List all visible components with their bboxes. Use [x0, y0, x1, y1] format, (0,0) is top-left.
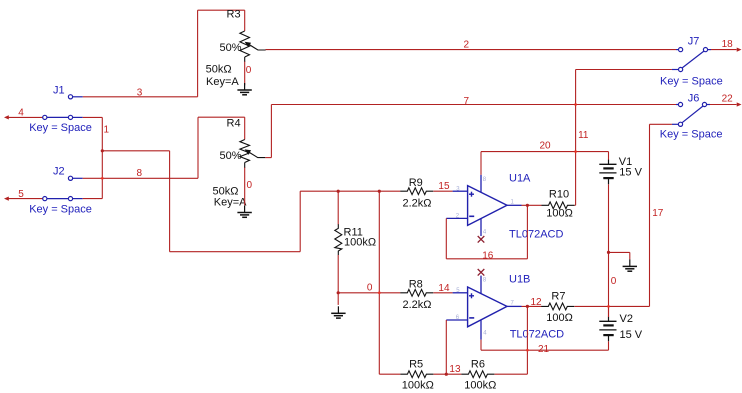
svg-text:U1A: U1A	[509, 172, 531, 184]
resistor R6	[461, 371, 494, 378]
svg-text:1: 1	[104, 124, 110, 135]
wire net 18 output	[711, 49, 737, 51]
wire net 17 J6 to R7	[650, 123, 672, 125]
svg-text:R6: R6	[471, 359, 485, 371]
wire net 12 R6 to U1B output	[495, 373, 528, 375]
wire net 21 U1B pin4 to V2 minus	[480, 340, 482, 351]
junction U1A output	[526, 204, 529, 207]
wire net 13 U1B inverting input	[445, 320, 447, 374]
wire net 1 branch to resistor row	[102, 150, 169, 152]
op-amp U1A	[468, 186, 507, 226]
svg-text:R8: R8	[409, 279, 423, 291]
wire net 0 V1 minus to V2 plus	[608, 184, 610, 317]
wire net 0 ground stub	[337, 293, 339, 305]
wire net 3 from J1 to R3 top	[83, 96, 198, 98]
wire net 1 from J1 contact down to J2 contact	[83, 116, 103, 118]
svg-text:21: 21	[538, 344, 550, 355]
resistor R7	[541, 303, 574, 310]
svg-text:100kΩ: 100kΩ	[464, 379, 496, 391]
wire R4 bottom to ground	[244, 163, 246, 169]
wire net 0 ground branch	[609, 251, 630, 253]
ground near R11	[337, 306, 339, 313]
svg-text:7: 7	[464, 96, 470, 107]
svg-text:J7: J7	[688, 36, 700, 48]
svg-text:0: 0	[611, 276, 617, 287]
wire R3 bottom to ground	[244, 57, 246, 62]
potentiometer R4 body	[240, 140, 250, 163]
wire net 2 from R3 wiper to J7	[266, 49, 677, 51]
junction net 1 at J1 column	[101, 149, 104, 152]
wire net 0 from ground to R8	[338, 292, 400, 294]
wire R10 to net 11	[575, 204, 576, 206]
svg-text:12: 12	[531, 297, 543, 308]
svg-text:11: 11	[578, 130, 589, 141]
svg-text:R3: R3	[227, 9, 241, 21]
U1B pin 8 no-connect X	[478, 269, 485, 276]
svg-text:Key = Space: Key = Space	[660, 128, 723, 140]
resistor R8	[400, 289, 433, 296]
svg-text:R9: R9	[409, 177, 423, 189]
svg-text:TL072ACD: TL072ACD	[510, 329, 564, 341]
resistor R9	[400, 188, 433, 195]
wire net 13 between R5 and R6	[434, 373, 462, 375]
svg-text:J6: J6	[688, 92, 700, 104]
junction U1B output	[526, 305, 529, 308]
svg-text:8: 8	[137, 168, 143, 179]
svg-text:2.2kΩ: 2.2kΩ	[403, 299, 432, 311]
op-amp U1B	[468, 287, 507, 327]
svg-text:0: 0	[246, 65, 252, 76]
junction net 0 ground branch	[607, 251, 610, 254]
svg-text:U1B: U1B	[509, 274, 530, 286]
svg-text:TL072ACD: TL072ACD	[509, 229, 563, 241]
svg-text:R5: R5	[409, 359, 423, 371]
wire U1A output to R10	[522, 204, 542, 206]
potentiometer R4 wiper arrow	[250, 153, 266, 158]
svg-text:3: 3	[137, 87, 143, 98]
svg-text:17: 17	[652, 208, 664, 219]
svg-text:Key = Space: Key = Space	[29, 203, 92, 215]
wire net 1 down to R5	[378, 191, 380, 374]
potentiometer R3 wiper arrow	[250, 45, 266, 50]
wire net 14 R8 to U1B	[433, 292, 452, 294]
svg-text:15: 15	[438, 181, 450, 192]
ground between batteries	[629, 259, 631, 266]
svg-text:R7: R7	[551, 290, 565, 302]
battery V1	[608, 160, 610, 165]
svg-text:Key=A: Key=A	[214, 196, 247, 208]
wire net 1 stub to R11	[337, 191, 339, 224]
svg-text:100Ω: 100Ω	[546, 312, 573, 324]
svg-text:0: 0	[247, 180, 253, 191]
svg-text:2: 2	[464, 39, 470, 50]
svg-text:5: 5	[18, 189, 24, 200]
resistor R11	[335, 224, 342, 255]
switch J7	[672, 69, 679, 71]
wire U1B output to R7	[522, 305, 542, 307]
svg-text:100kΩ: 100kΩ	[402, 379, 434, 391]
svg-text:50%: 50%	[219, 42, 241, 54]
svg-text:100Ω: 100Ω	[546, 208, 573, 220]
svg-text:14: 14	[438, 283, 450, 294]
wire net 16 feedback U1A	[445, 218, 447, 258]
svg-text:J1: J1	[53, 85, 65, 97]
svg-text:R10: R10	[549, 189, 569, 201]
svg-text:15 V: 15 V	[620, 329, 643, 341]
wire net 11 R10 to J7	[575, 70, 577, 206]
switch J1	[47, 116, 68, 118]
svg-text:50kΩ: 50kΩ	[206, 64, 232, 76]
svg-text:20: 20	[540, 140, 552, 151]
ground under R3	[244, 83, 246, 90]
battery V2	[608, 317, 610, 322]
svg-text:4: 4	[18, 108, 24, 119]
junction net 1 at R5 branch	[378, 190, 381, 193]
wire net 22 output	[710, 104, 737, 106]
svg-text:0: 0	[367, 283, 373, 294]
junction node 13	[445, 373, 448, 376]
svg-text:Key = Space: Key = Space	[660, 75, 723, 87]
U1A pin 4 no-connect X	[478, 236, 485, 243]
wire net 1 to R5	[379, 373, 400, 375]
wire net 20 U1A pin8 to V1	[480, 152, 482, 175]
wire R11 bottom to net 0	[337, 255, 339, 293]
switch J6	[672, 123, 679, 125]
wire net 7 from R4 wiper to J6	[265, 157, 271, 159]
junction net 1 at R11	[337, 190, 340, 193]
potentiometer R3 body	[240, 31, 250, 57]
svg-text:Key=A: Key=A	[206, 76, 239, 88]
svg-text:2.2kΩ: 2.2kΩ	[403, 198, 432, 210]
switch J2	[47, 198, 68, 200]
svg-text:100kΩ: 100kΩ	[344, 237, 376, 249]
svg-text:15 V: 15 V	[619, 166, 642, 178]
svg-text:V2: V2	[620, 313, 633, 325]
svg-text:J2: J2	[53, 166, 65, 178]
junction net 0 at ground	[337, 291, 340, 294]
svg-text:18: 18	[722, 39, 734, 50]
svg-text:22: 22	[722, 94, 734, 105]
ground under R4	[244, 206, 246, 213]
wire crossover highlights	[101, 177, 103, 179]
switch J1 common wire net 4	[4, 115, 9, 119]
resistor R5	[400, 371, 433, 378]
switch J2 common wire net 5	[4, 197, 9, 201]
wire net 8 from J2 to R4 top	[83, 177, 198, 179]
resistor R10	[542, 202, 575, 209]
svg-text:16: 16	[482, 250, 494, 261]
svg-text:13: 13	[449, 364, 461, 375]
svg-text:R4: R4	[227, 118, 241, 130]
svg-text:Key = Space: Key = Space	[29, 122, 92, 134]
wire net 15 R9 to U1A	[433, 190, 452, 192]
svg-text:50%: 50%	[219, 150, 241, 162]
